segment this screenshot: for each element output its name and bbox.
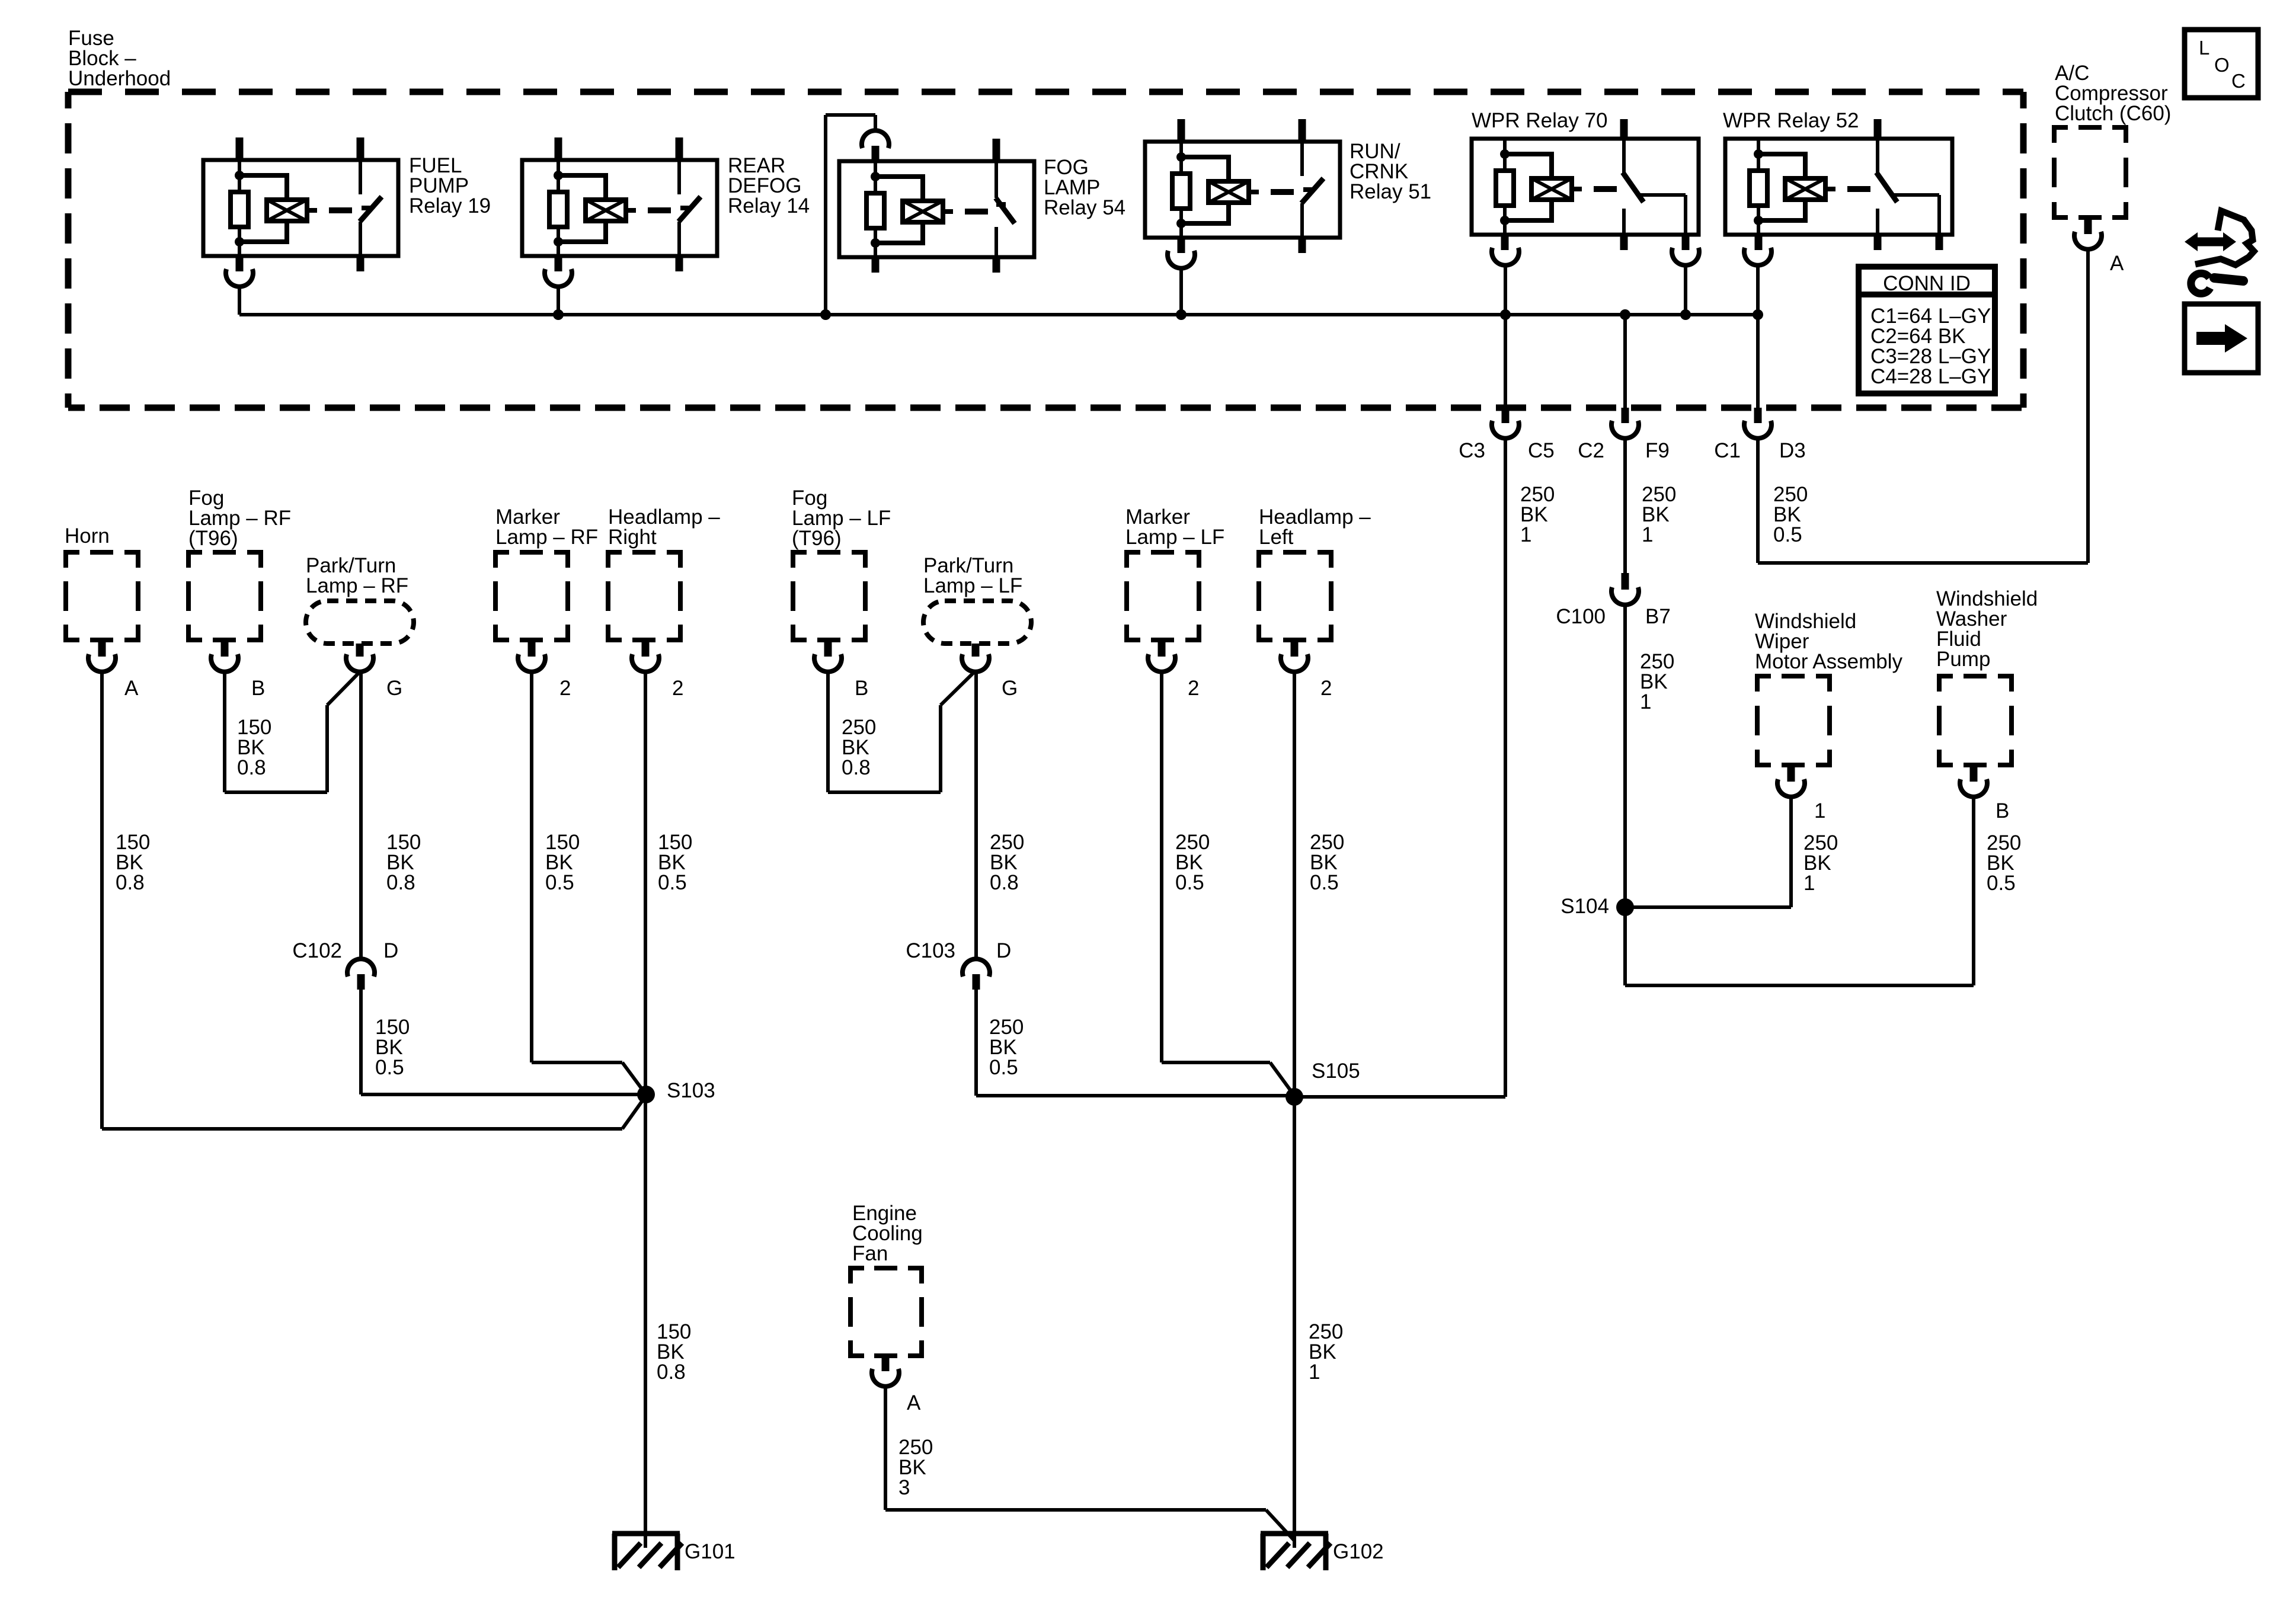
svg-text:D: D (383, 939, 398, 962)
svg-text:A: A (907, 1391, 921, 1414)
svg-text:Underhood: Underhood (68, 67, 171, 90)
svg-text:F9: F9 (1645, 439, 1670, 462)
svg-text:0.5: 0.5 (375, 1056, 404, 1079)
svg-text:Fan: Fan (852, 1242, 888, 1265)
svg-text:Relay 19: Relay 19 (409, 194, 491, 217)
svg-text:C3: C3 (1459, 439, 1485, 462)
svg-text:O: O (2214, 54, 2230, 76)
svg-text:Relay 54: Relay 54 (1044, 196, 1125, 219)
svg-text:Horn: Horn (65, 524, 110, 548)
svg-text:G: G (1002, 677, 1018, 700)
svg-text:2: 2 (1320, 677, 1332, 700)
svg-text:Lamp – RF: Lamp – RF (306, 574, 408, 597)
svg-text:0.8: 0.8 (386, 871, 415, 894)
svg-text:1: 1 (1803, 872, 1815, 895)
svg-text:S103: S103 (667, 1079, 715, 1102)
svg-text:C4=28 L–GY: C4=28 L–GY (1870, 365, 1991, 388)
svg-text:1: 1 (1642, 523, 1653, 546)
svg-text:0.5: 0.5 (989, 1056, 1018, 1079)
svg-text:0.8: 0.8 (657, 1361, 686, 1384)
svg-text:1: 1 (1640, 690, 1651, 713)
svg-text:3: 3 (898, 1476, 910, 1499)
svg-text:0.5: 0.5 (1310, 871, 1339, 894)
svg-text:C102: C102 (292, 939, 342, 962)
svg-text:Lamp – LF: Lamp – LF (923, 574, 1022, 597)
svg-text:Pump: Pump (1936, 648, 1990, 671)
svg-text:A: A (2110, 252, 2124, 275)
svg-text:B: B (251, 677, 265, 700)
svg-text:2: 2 (559, 677, 571, 700)
svg-text:1: 1 (1814, 799, 1825, 822)
svg-text:C2: C2 (1578, 439, 1604, 462)
svg-text:0.8: 0.8 (237, 756, 266, 779)
svg-text:B: B (855, 677, 868, 700)
svg-text:0.5: 0.5 (658, 871, 687, 894)
svg-text:1: 1 (1520, 523, 1531, 546)
svg-text:A: A (124, 677, 139, 700)
svg-text:0.8: 0.8 (116, 871, 145, 894)
svg-text:Lamp – RF: Lamp – RF (495, 526, 598, 549)
svg-text:WPR Relay 70: WPR Relay 70 (1472, 109, 1608, 132)
svg-text:2: 2 (1188, 677, 1199, 700)
svg-text:Relay 51: Relay 51 (1350, 180, 1431, 203)
svg-text:WPR Relay 52: WPR Relay 52 (1723, 109, 1859, 132)
svg-text:Clutch (C60): Clutch (C60) (2055, 102, 2171, 125)
svg-text:L: L (2199, 37, 2209, 59)
svg-text:C: C (2231, 70, 2246, 92)
svg-text:B: B (1996, 799, 2009, 822)
svg-text:G102: G102 (1333, 1540, 1384, 1563)
svg-text:S105: S105 (1312, 1060, 1360, 1083)
svg-text:Right: Right (608, 526, 657, 549)
svg-text:C1: C1 (1714, 439, 1741, 462)
svg-text:0.5: 0.5 (1773, 523, 1802, 546)
svg-text:C103: C103 (906, 939, 955, 962)
svg-text:0.8: 0.8 (842, 756, 871, 779)
svg-text:0.5: 0.5 (545, 871, 574, 894)
svg-text:G: G (386, 677, 402, 700)
svg-text:2: 2 (672, 677, 683, 700)
svg-text:G101: G101 (685, 1540, 736, 1563)
svg-text:Lamp – LF: Lamp – LF (1125, 526, 1224, 549)
svg-text:0.5: 0.5 (1175, 871, 1204, 894)
svg-text:D3: D3 (1779, 439, 1806, 462)
svg-text:D: D (996, 939, 1011, 962)
svg-text:B7: B7 (1645, 605, 1671, 628)
svg-text:C100: C100 (1556, 605, 1606, 628)
svg-text:Left: Left (1259, 526, 1294, 549)
svg-text:(T96): (T96) (792, 527, 842, 550)
svg-text:Motor Assembly: Motor Assembly (1755, 650, 1902, 673)
svg-text:(T96): (T96) (188, 527, 238, 550)
svg-text:CONN ID: CONN ID (1883, 272, 1971, 295)
svg-text:0.8: 0.8 (990, 871, 1019, 894)
svg-text:C5: C5 (1528, 439, 1555, 462)
svg-text:1: 1 (1309, 1361, 1320, 1384)
svg-text:S104: S104 (1560, 895, 1609, 918)
svg-text:Relay 14: Relay 14 (728, 194, 810, 217)
svg-text:0.5: 0.5 (1987, 872, 2016, 895)
